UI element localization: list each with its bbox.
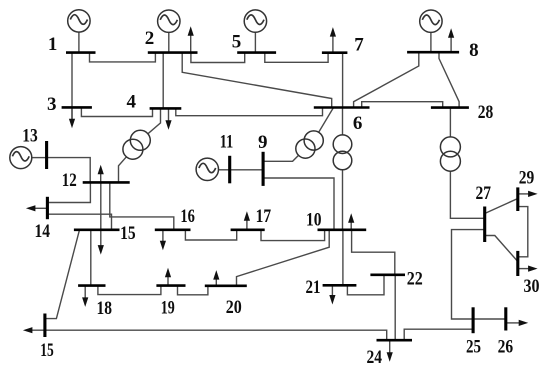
svg-text:15: 15 bbox=[40, 340, 54, 361]
wire transformer T6-9 to 9 bbox=[263, 155, 299, 161]
bus 21 bbox=[323, 284, 357, 287]
svg-text:29: 29 bbox=[519, 168, 535, 189]
svg-text:4: 4 bbox=[126, 91, 136, 112]
transformer T6-10 bbox=[333, 135, 352, 170]
wire 4 to transformer T4-12 bbox=[148, 108, 161, 133]
svg-text:14: 14 bbox=[35, 221, 51, 242]
wire 13-12 bbox=[47, 158, 91, 183]
wire 28-27 through transformer bbox=[450, 108, 484, 219]
bus 25 bbox=[472, 307, 475, 333]
wire 3-4 bbox=[81, 107, 152, 116]
load arrow bus 2 bbox=[188, 26, 194, 53]
wire 15-18 bbox=[90, 230, 92, 286]
svg-text:13: 13 bbox=[22, 125, 38, 146]
svg-text:1: 1 bbox=[48, 34, 58, 55]
load arrow bus 8 bbox=[448, 28, 454, 53]
wire 27-25 bbox=[452, 230, 485, 319]
svg-text:17: 17 bbox=[256, 206, 272, 227]
bus 7 bbox=[322, 51, 348, 54]
bus 24 bbox=[377, 339, 413, 342]
load arrow bus 23 bbox=[23, 327, 33, 333]
load arrow bus 4 bbox=[165, 108, 171, 130]
wire 12-14 bbox=[47, 182, 90, 202]
wire 23-24 long line bbox=[28, 330, 387, 340]
svg-text:7: 7 bbox=[354, 35, 364, 56]
generator G11 bbox=[196, 158, 218, 180]
wire 6-28 bbox=[362, 102, 443, 108]
bus 11 bbox=[228, 156, 231, 184]
wire 18-19 bbox=[98, 286, 161, 295]
wire 5-7 bbox=[265, 53, 328, 63]
bus 16 bbox=[155, 229, 191, 232]
bus 27 bbox=[483, 207, 486, 243]
load arrow bus 24 bbox=[387, 340, 393, 362]
wire 22-24 bbox=[394, 275, 396, 340]
wire 6-10 through transformer bbox=[342, 108, 344, 230]
wire 2-6 bbox=[182, 53, 332, 108]
bus 4 bbox=[150, 107, 182, 110]
svg-text:18: 18 bbox=[97, 298, 113, 319]
wire 7-6 bbox=[342, 53, 344, 108]
load arrow bus 29 bbox=[518, 191, 538, 197]
wire 8-6 bbox=[354, 52, 419, 107]
wire 12-16 bbox=[110, 182, 174, 229]
wire 10-20 bbox=[237, 230, 330, 286]
generator G13 bbox=[10, 147, 32, 169]
wire transformer T4-12 to 12 bbox=[119, 157, 127, 183]
bus 22 bbox=[370, 273, 405, 276]
svg-text:12: 12 bbox=[62, 170, 77, 191]
wire 19-20 bbox=[178, 286, 208, 295]
generator G5 bbox=[244, 10, 266, 53]
wire 8-28 bbox=[439, 52, 459, 107]
svg-text:5: 5 bbox=[232, 31, 242, 52]
wire 16-17 bbox=[185, 230, 236, 240]
wire 1-2 bbox=[90, 53, 156, 62]
bus 30 bbox=[516, 251, 519, 276]
wire 6 to transformer T6-9 bbox=[319, 108, 334, 133]
svg-text:8: 8 bbox=[469, 40, 479, 61]
load arrow bus 16 bbox=[160, 230, 166, 250]
wire 15-23 bbox=[45, 230, 79, 319]
svg-text:30: 30 bbox=[524, 276, 540, 297]
svg-text:3: 3 bbox=[47, 94, 57, 115]
load arrow bus 17 bbox=[244, 211, 250, 230]
wire 10-21 bbox=[342, 230, 344, 285]
bus 26 bbox=[504, 307, 507, 330]
bus 1 bbox=[66, 51, 96, 54]
wire 11-9 bbox=[230, 169, 263, 171]
load arrow bus 21 bbox=[329, 285, 335, 304]
bus 5 bbox=[237, 51, 276, 54]
load arrow bus 30 bbox=[518, 266, 538, 272]
bus 19 bbox=[156, 284, 185, 287]
wire 10-22 bbox=[352, 230, 395, 275]
svg-text:26: 26 bbox=[498, 337, 514, 358]
svg-text:27: 27 bbox=[475, 183, 491, 204]
load arrow bus 15 bbox=[98, 230, 104, 255]
load arrow bus 18 bbox=[82, 286, 88, 307]
svg-text:21: 21 bbox=[306, 277, 321, 298]
bus 6 bbox=[314, 106, 370, 109]
wire 9-10 bbox=[263, 178, 334, 230]
bus 12 bbox=[83, 181, 130, 184]
svg-text:9: 9 bbox=[258, 132, 268, 153]
svg-text:6: 6 bbox=[353, 113, 363, 134]
wire 29-30 bbox=[518, 207, 528, 257]
wire 12-15 bbox=[100, 182, 102, 229]
svg-text:24: 24 bbox=[367, 347, 383, 368]
svg-text:19: 19 bbox=[161, 297, 175, 318]
svg-text:20: 20 bbox=[226, 297, 242, 318]
wire generator G13 stem bbox=[31, 157, 46, 159]
transformer T6-9 bbox=[296, 131, 324, 158]
bus 2 bbox=[148, 51, 198, 54]
wire 2-4 bbox=[162, 53, 164, 109]
bus 8 bbox=[407, 51, 459, 54]
generator G1 bbox=[68, 10, 90, 53]
svg-text:22: 22 bbox=[407, 268, 423, 289]
wire 25-26 bbox=[473, 318, 506, 320]
wire 27-29 bbox=[485, 199, 518, 214]
wire 4-6 bbox=[176, 108, 323, 116]
load arrow bus 14 bbox=[26, 205, 48, 211]
bus 20 bbox=[205, 284, 247, 287]
generator G8 bbox=[420, 10, 442, 52]
wire 2-5 bbox=[191, 53, 245, 63]
load arrow bus 20 bbox=[213, 270, 219, 286]
wire 27-30 bbox=[485, 236, 518, 262]
load arrow bus 10 bbox=[348, 213, 354, 230]
bus 9 bbox=[262, 152, 265, 186]
wire 14-15 bbox=[47, 214, 111, 230]
bus 15 bbox=[74, 229, 120, 232]
svg-text:10: 10 bbox=[306, 210, 322, 231]
bus 13 bbox=[45, 141, 48, 169]
load arrow bus 7 bbox=[330, 27, 336, 53]
svg-text:2: 2 bbox=[145, 28, 155, 49]
bus 23 bbox=[43, 314, 46, 338]
bus 3 bbox=[62, 106, 92, 109]
svg-text:11: 11 bbox=[220, 132, 234, 153]
load arrow bus 19 bbox=[165, 268, 171, 286]
bus 17 bbox=[231, 229, 265, 232]
transformer T28-27 bbox=[440, 137, 460, 171]
svg-text:15: 15 bbox=[120, 223, 136, 244]
transformer T4-12 bbox=[123, 130, 150, 159]
bus 14 bbox=[46, 197, 49, 219]
wire generator G11 stem bbox=[217, 169, 230, 171]
svg-text:28: 28 bbox=[478, 102, 494, 123]
load arrow bus 26 bbox=[506, 320, 528, 326]
wire 21-22 bbox=[347, 275, 384, 295]
generator G2 bbox=[158, 10, 180, 53]
wire 24-25 bbox=[404, 329, 473, 340]
wire 1-3 bbox=[71, 53, 73, 120]
load arrow bus 12 bbox=[98, 165, 104, 183]
bus 29 bbox=[516, 187, 519, 211]
bus 10 bbox=[318, 229, 367, 232]
svg-text:25: 25 bbox=[466, 336, 481, 357]
svg-text:16: 16 bbox=[180, 206, 195, 227]
bus 18 bbox=[78, 284, 105, 287]
load arrow bus 3 bbox=[69, 107, 75, 128]
bus 28 bbox=[431, 106, 469, 109]
wire 17-10 bbox=[261, 230, 325, 241]
